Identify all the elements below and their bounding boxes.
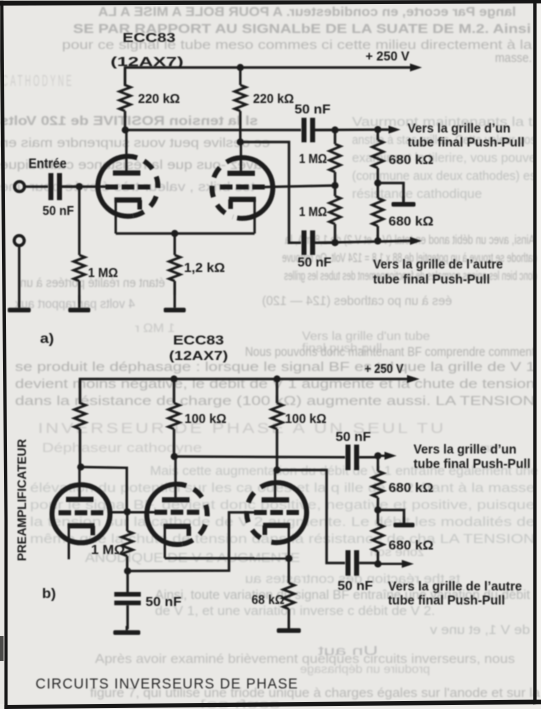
capacitor C2 50nF [295,102,336,143]
junction out1 / R3 divider [331,126,338,133]
svg-text:680 kΩ: 680 kΩ [389,480,434,495]
svg-text:ECC83: ECC83 [173,333,224,348]
junction cathode bus / R15 [285,555,292,562]
svg-text:CATHODYNE: CATHODYNE [2,73,74,90]
svg-text:Entrée: Entrée [29,156,67,171]
resistor R9 plate preamp [74,379,85,467]
junction V4 plate / R10 [171,453,178,460]
ground R7 ground [68,295,90,312]
wire C2 to out1 junctions [315,128,388,131]
svg-text:50 nF: 50 nF [298,255,332,270]
resistor R8 1.2k [169,234,225,296]
svg-text:lange Par ecorte, en condidest: lange Par ecorte, en condidesteur. A POU… [97,4,516,19]
svg-text:1 MΩ r: 1 MΩ r [135,321,175,335]
svg-text:tube final Push-Pull: tube final Push-Pull [414,456,531,471]
junction rail / R11 [273,375,280,382]
svg-text:100 kΩ: 100 kΩ [285,411,327,426]
resistor R14 680k [372,510,433,564]
junction divider tap [331,182,338,189]
wire V1 plate to C2 [125,129,301,132]
wire V4 plate to C4 [174,455,345,458]
svg-text:masse.: masse. [495,51,532,65]
resistor R4 1M [299,186,341,243]
wire tap to V2 grid [265,186,336,188]
svg-text:(12AX7): (12AX7) [111,54,184,69]
svg-text:68 kΩ: 68 kΩ [252,592,285,607]
ground output divider (a) [392,196,416,207]
svg-text:+ 250 V: + 250 V [365,361,404,376]
junction out2 / R4 divider [331,239,338,246]
svg-text:PREAMPLIFICATEUR: PREAMPLIFICATEUR [17,438,29,561]
node +250V rail (a) [125,64,422,87]
svg-text:680 kΩ: 680 kΩ [389,538,434,553]
ground output divider (b) [394,517,415,527]
wire mid to ground stub (a) [378,183,404,202]
svg-text:1 MΩ: 1 MΩ [299,204,327,219]
svg-text:b): b) [42,586,56,601]
svg-text:tube final Push-Pull: tube final Push-Pull [408,135,525,150]
svg-text:220 kΩ: 220 kΩ [138,91,180,106]
resistor R7 1M grid leak [74,187,118,304]
junction plate V1 / R1 [122,126,129,133]
junction rail / R2 [237,64,244,71]
junction out1 (b) [374,452,381,459]
svg-text:ECC83: ECC83 [123,30,176,45]
resistor R1 220k [119,68,180,130]
resistor R11 100k [271,379,326,470]
junction R13/R14 mid [374,506,381,513]
svg-text:680 kΩ: 680 kΩ [389,214,434,229]
svg-text:220 kΩ: 220 kΩ [253,91,294,106]
resistor R5 680k [372,130,433,183]
svg-text:Vers la grille d'un tube: Vers la grille d'un tube [302,331,430,343]
junction out1 / R5 [374,126,381,133]
junction cathode bus / R8 [171,230,178,237]
capacitor C4 50nF [336,429,379,470]
svg-text:Nous pouvons donc maintenant B: Nous pouvons donc maintenant BF comprend… [245,345,535,359]
svg-text:1 MΩ: 1 MΩ [299,151,327,166]
svg-text:tube final Push-Pull: tube final Push-Pull [373,272,490,287]
svg-text:a): a) [40,331,54,346]
wire cathode bus (a) [116,232,255,235]
resistor R15 68k [252,558,295,628]
svg-text:50 nF: 50 nF [295,102,331,117]
resistor R3 1M [299,130,341,186]
junction R12 / C6 / bias wire [124,567,131,574]
svg-text:Vers la grille de l’autre: Vers la grille de l’autre [373,257,503,272]
resistor R13 680k [372,456,433,510]
stray mark left edge [0,636,4,661]
svg-text:50 nF: 50 nF [146,594,182,609]
svg-text:100 kΩ: 100 kΩ [185,411,227,426]
node +250V rail (b) [80,375,420,404]
junction V5 plate branch [273,466,280,473]
wire grid link V4 [110,511,155,514]
svg-text:680 kΩ: 680 kΩ [389,152,434,167]
svg-text:1,2 kΩ: 1,2 kΩ [184,260,225,275]
wire bias wire to V5 grid [128,512,255,571]
svg-text:tube final Push-Pull: tube final Push-Pull [388,593,505,608]
capacitor C1 50nF input [43,173,80,218]
svg-text:résistance cathodique: résistance cathodique [352,187,482,201]
arrow to grid 2 (b) [378,560,414,568]
capacitor C5 50nF [338,550,379,593]
svg-text:INVERSEUR DE PHASE A UN SEUL T: INVERSEUR DE PHASE A UN SEUL TU [38,421,446,437]
ground C6 ground [113,626,140,635]
wire V5 plate to C5 [277,470,345,563]
svg-text:Vers la grille d’un: Vers la grille d’un [414,442,517,457]
junction R5/R6 mid [374,179,381,186]
triode V3 preamp [52,467,110,559]
junction V3 plate node [77,463,84,470]
wire C1 to V1 grid [61,185,106,188]
arrow to grid 1 (b) [378,452,397,460]
junction out2 / R6 [374,237,381,244]
ground input jack ground [8,246,31,312]
svg-text:ées à un po cathodes (124 —: ées à un po cathodes (124 — 120) [262,294,452,308]
arrow to grid 1 (a) [378,126,401,134]
svg-text:50 nF: 50 nF [43,203,75,218]
resistor R12 1M [91,512,133,571]
wire V2 plate around to C3 [240,142,301,243]
junction rail / R10 [170,375,177,382]
wire V3 plate to V4 grid net [81,467,127,512]
capacitor C6 50nF [114,571,181,629]
svg-text:50 nF: 50 nF [338,578,374,593]
svg-text:+ 250 V: + 250 V [366,49,410,64]
resistor R2 220k [235,68,294,142]
svg-text:1 MΩ: 1 MΩ [91,542,125,557]
arrow to grid 2 (a) [400,237,422,245]
svg-text:de V 1, et une v: de V 1, et une v [429,623,530,637]
svg-text:Déphaseur cathodyne: Déphaseur cathodyne [42,440,202,455]
ground R15 ground [277,620,301,633]
junction out2 (b) [374,560,381,567]
svg-text:Vers la grille d’un: Vers la grille d’un [408,121,511,136]
wire cathode bus (b) [165,557,290,560]
capacitor C3 50nF [298,230,336,269]
junction plate V2 / R2 [237,138,244,145]
svg-text:Vers la grille de l’autre: Vers la grille de l’autre [388,579,522,594]
svg-text:sl la tension ROSITIVE de: sl la tension ROSITIVE de 120 Volts [0,113,258,128]
svg-text:produire un déphasage: produire un déphasage [300,662,430,676]
resistor R10 100k [168,379,226,457]
svg-text:CIRCUITS INVERSEURS DE PHASE: CIRCUITS INVERSEURS DE PHASE [36,676,299,693]
wire mid to ground stub (b) [378,510,404,523]
resistor R6 680k [372,183,433,241]
svg-text:50 nF: 50 nF [336,429,372,444]
svg-text:se produit le déphasage : lors: se produit le déphasage : lorsque le sig… [15,360,535,374]
svg-text:1 MΩ: 1 MΩ [88,265,118,280]
terminal input jack ground [14,236,24,246]
svg-text:ec oeslive peut vous surprendr: ec oeslive peut vous surprendre mais en [0,136,270,150]
terminal input jack hot [15,182,25,192]
ground R8 ground [164,281,186,312]
junction V1 grid / R7 [76,183,83,190]
triode V5 ECC83-b [247,470,307,583]
triode V2 ECC83-a [212,142,273,234]
svg-text:dans la résistance de char: dans la résistance de charge (100 kΩ) au… [15,394,535,408]
wire C3 to out2 junctions [315,241,410,243]
triode V1 ECC83-a [98,130,158,234]
junction V4 grid / R12 [124,508,131,515]
triode V4 ECC83-b [147,457,207,559]
svg-text:(12AX7): (12AX7) [169,348,228,363]
wire jack to C1 [25,185,48,188]
